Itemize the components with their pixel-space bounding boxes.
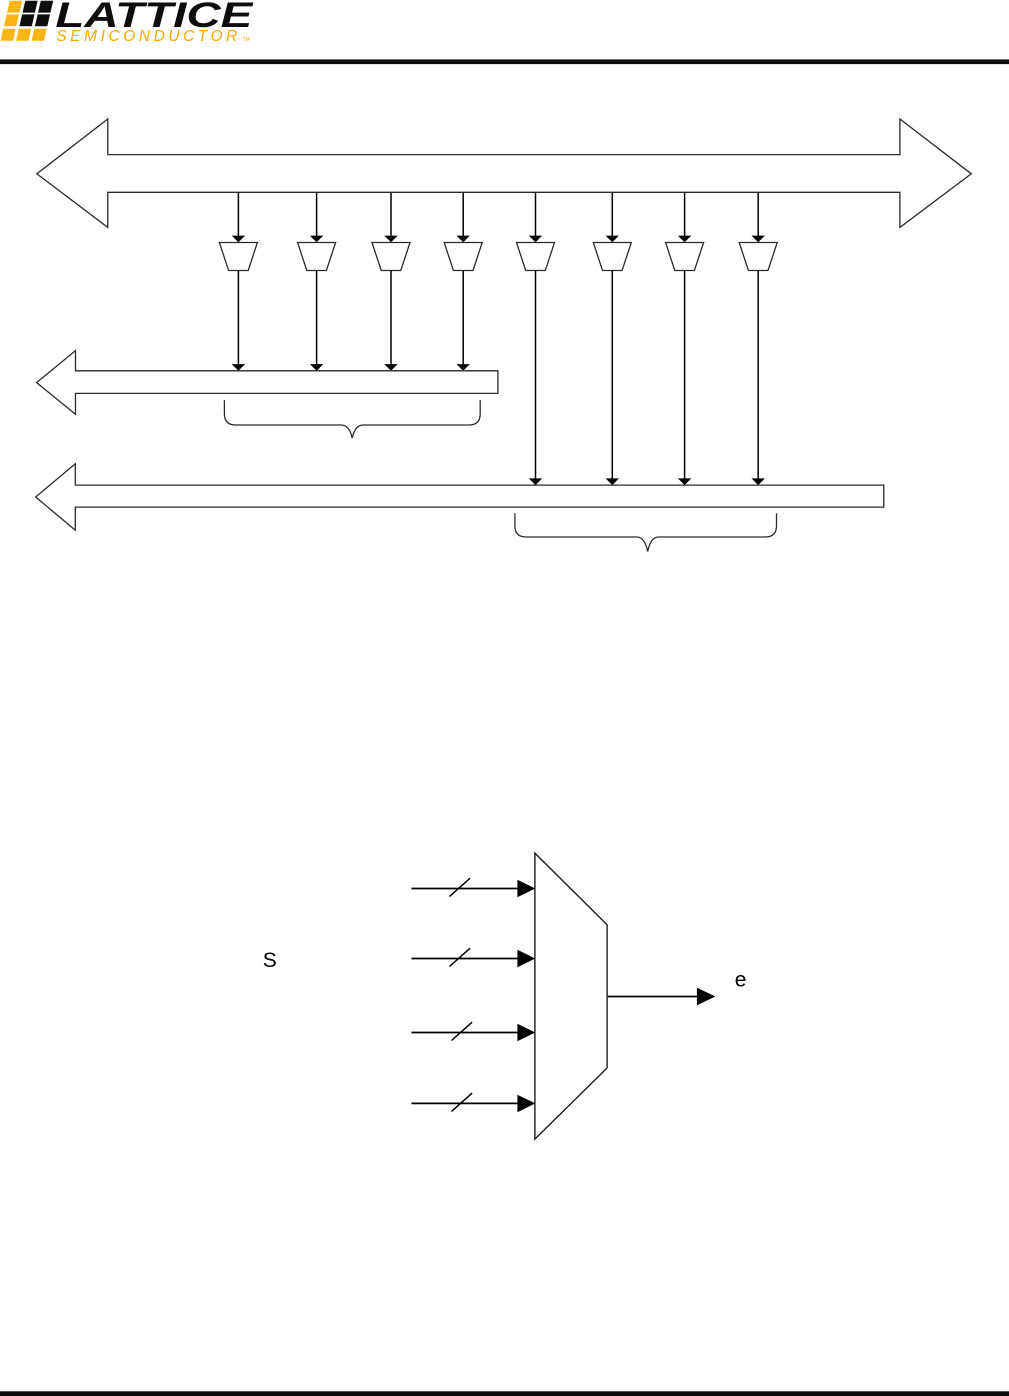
arrowhead into lower bus col 6 — [606, 478, 619, 485]
svg-text:TM: TM — [243, 37, 250, 43]
wire from bus to buffer 5 — [535, 193, 537, 236]
mux input wire 4 — [412, 1102, 519, 1104]
arrowhead input 3 — [517, 1024, 535, 1042]
horizontal system bus double arrow — [37, 119, 972, 227]
arrowhead into buffer 6 — [606, 236, 619, 243]
bus width slash on input 1 — [450, 878, 471, 896]
buffer trapezoid 5 — [517, 243, 555, 271]
arrowhead input 1 — [517, 880, 535, 898]
wire from buffer 8 to lower bus — [757, 271, 759, 479]
wire from buffer 3 to upper bus — [390, 271, 392, 365]
footer rule — [0, 1391, 1009, 1396]
arrowhead into upper bus col 1 — [232, 364, 245, 371]
wire from buffer 1 to upper bus — [237, 271, 239, 365]
arrowhead into buffer 4 — [457, 236, 470, 243]
arrowhead input 2 — [517, 950, 535, 968]
wire from bus to buffer 1 — [237, 193, 239, 236]
buffer trapezoid 6 — [593, 243, 631, 271]
svg-text:S: S — [263, 949, 277, 972]
mux input wire 2 — [412, 958, 519, 960]
mux input wire 1 — [412, 888, 519, 890]
upper left-pointing bus arrow — [37, 351, 498, 415]
wire from buffer 7 to lower bus — [684, 271, 686, 479]
buffer trapezoid 4 — [444, 243, 482, 271]
wire from bus to buffer 7 — [684, 193, 686, 236]
svg-text:e: e — [735, 968, 747, 991]
lower left-pointing bus arrow — [36, 464, 884, 530]
output arrowhead — [697, 988, 716, 1006]
arrowhead into upper bus col 3 — [384, 364, 397, 371]
wire from bus to buffer 8 — [757, 193, 759, 236]
bus width slash on input 2 — [450, 948, 471, 966]
arrowhead into upper bus col 4 — [457, 364, 470, 371]
buffer trapezoid 7 — [666, 243, 704, 271]
buffer trapezoid 2 — [298, 243, 336, 271]
arrowhead into lower bus col 8 — [752, 478, 765, 485]
bus width slash on input 4 — [452, 1093, 473, 1111]
wire from bus to buffer 3 — [390, 193, 392, 236]
buffer trapezoid 3 — [372, 243, 410, 271]
wire from buffer 6 to lower bus — [611, 271, 613, 479]
mux input wire 3 — [412, 1032, 519, 1034]
wire from buffer 5 to lower bus — [535, 271, 537, 479]
arrowhead into buffer 3 — [384, 236, 397, 243]
svg-text:SEMICONDUCTOR: SEMICONDUCTOR — [56, 28, 241, 45]
wire from bus to buffer 4 — [462, 193, 464, 236]
arrowhead input 4 — [517, 1095, 535, 1113]
arrowhead into lower bus col 5 — [529, 478, 542, 485]
arrowhead into buffer 5 — [529, 236, 542, 243]
mux body trapezoid — [535, 853, 607, 1139]
buffer trapezoid 8 — [739, 243, 777, 271]
wire from bus to buffer 2 — [316, 193, 318, 236]
brace under upper bus — [224, 400, 480, 438]
wire from bus to buffer 6 — [611, 193, 613, 236]
mux output wire — [608, 996, 698, 998]
arrowhead into buffer 8 — [752, 236, 765, 243]
arrowhead into buffer 1 — [232, 236, 245, 243]
brace under lower bus — [515, 513, 777, 551]
Lattice logo square grid — [1, 1, 54, 41]
arrowhead into buffer 2 — [310, 236, 323, 243]
wire from buffer 2 to upper bus — [316, 271, 318, 365]
header rule — [0, 59, 1009, 64]
arrowhead into upper bus col 2 — [310, 364, 323, 371]
buffer trapezoid 1 — [219, 243, 257, 271]
arrowhead into lower bus col 7 — [678, 478, 691, 485]
bus width slash on input 3 — [452, 1022, 473, 1040]
arrowhead into buffer 7 — [678, 236, 691, 243]
wire from buffer 4 to upper bus — [462, 271, 464, 365]
